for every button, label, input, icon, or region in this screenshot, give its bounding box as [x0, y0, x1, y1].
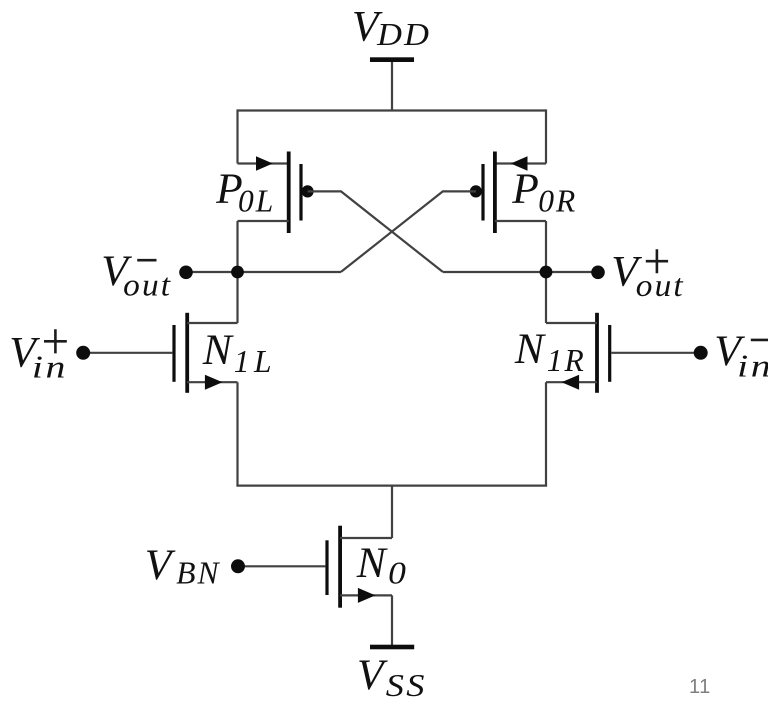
- wire left drain drop: [236, 221, 238, 323]
- wire right output row: [443, 271, 598, 273]
- wire left source drop: [236, 382, 238, 485]
- label Vin+: [9, 328, 68, 384]
- svg-text:out: out: [636, 268, 685, 303]
- label Vout-: [101, 247, 172, 303]
- svg-text:V: V: [145, 541, 176, 589]
- terminal Vin+: [76, 346, 90, 360]
- power VDD symbol: [370, 57, 414, 110]
- transistor N1L: [83, 313, 237, 393]
- terminal VBN: [231, 559, 245, 573]
- svg-text:N: N: [514, 325, 547, 373]
- wire left output row: [186, 271, 341, 273]
- transistor N0: [238, 526, 392, 608]
- svg-text:N: N: [202, 326, 235, 374]
- svg-text:0L: 0L: [238, 184, 275, 219]
- wire P0L gate to right output (cross-couple): [308, 191, 443, 272]
- svg-text:in: in: [32, 350, 68, 385]
- terminal Vin-: [694, 346, 708, 360]
- svg-text:N: N: [356, 539, 389, 587]
- label VBN: [145, 541, 221, 591]
- transistor P0L: [238, 152, 314, 234]
- svg-text:1L: 1L: [234, 344, 276, 379]
- label VDD: [352, 2, 431, 52]
- label P0L: [215, 165, 275, 219]
- terminal Vout+: [591, 266, 605, 280]
- ground VSS symbol: [370, 645, 414, 650]
- label Vout+: [611, 248, 685, 303]
- label N1L: [202, 326, 276, 379]
- label P0R: [511, 165, 577, 218]
- wire tail stem: [391, 486, 393, 538]
- svg-text:in: in: [737, 349, 768, 384]
- svg-text:P: P: [511, 165, 539, 213]
- wire top rail: [238, 109, 547, 111]
- terminal Vout-: [179, 266, 193, 280]
- wire right drain drop: [545, 221, 547, 323]
- wire right VDD drop: [545, 109, 547, 163]
- svg-text:0: 0: [388, 556, 408, 591]
- label N0: [356, 539, 409, 590]
- label Vin-: [714, 327, 768, 384]
- svg-text:1R: 1R: [547, 343, 586, 378]
- wire bottom rail (tail node): [236, 485, 547, 487]
- wire left VDD drop: [236, 109, 238, 163]
- junction right output node: [540, 266, 553, 279]
- svg-text:11: 11: [689, 676, 711, 698]
- svg-text:V: V: [357, 651, 388, 699]
- svg-text:SS: SS: [386, 668, 427, 703]
- wire P0R gate to left output (cross-couple): [341, 191, 476, 272]
- wire ground stem: [391, 595, 393, 645]
- svg-text:out: out: [123, 267, 172, 302]
- transistor N1R: [546, 313, 701, 393]
- svg-text:BN: BN: [176, 556, 220, 591]
- wire right source drop: [545, 382, 547, 485]
- label N1R: [514, 325, 586, 378]
- label VSS: [357, 651, 427, 703]
- junction left output node: [231, 266, 244, 279]
- transistor P0R: [470, 152, 546, 234]
- svg-text:DD: DD: [376, 17, 431, 52]
- svg-text:0R: 0R: [538, 183, 577, 218]
